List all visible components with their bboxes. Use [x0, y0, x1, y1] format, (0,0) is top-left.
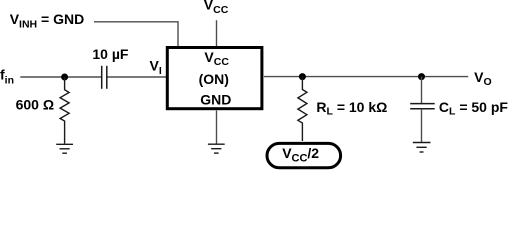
svg-text:VCC: VCC [204, 0, 229, 16]
junction node A [61, 74, 68, 81]
svg-text:600 Ω: 600 Ω [16, 97, 54, 113]
resistor 600 ohm [60, 77, 69, 144]
svg-text:GND: GND [200, 92, 231, 108]
ground (GND pin) [208, 144, 225, 153]
op-amp U1 box [167, 48, 262, 109]
svg-text:RL = 10 kΩ: RL = 10 kΩ [316, 99, 387, 117]
resistor RL [298, 77, 307, 141]
wire CL to ground [421, 109, 423, 142]
capacitor C 10uF [102, 66, 107, 89]
ground (600 ohm) [56, 144, 73, 153]
junction node B [299, 73, 306, 80]
svg-text:fin: fin [0, 66, 14, 86]
svg-text:10 µF: 10 µF [92, 46, 129, 62]
wire output rail [264, 76, 468, 78]
wire VINH to box top [94, 22, 178, 47]
node VCC/2 oval [267, 143, 341, 167]
svg-text:CL = 50 pF: CL = 50 pF [439, 99, 508, 117]
wire fin to capacitor [20, 76, 101, 78]
capacitor CL [410, 104, 435, 109]
wire capacitor to box [108, 76, 167, 78]
ground (CL) [413, 143, 431, 153]
wire GND pin to ground [216, 111, 218, 144]
wire node C to capacitor CL [421, 77, 423, 103]
svg-text:VO: VO [474, 69, 492, 88]
svg-text:VI: VI [150, 58, 162, 78]
wire VCC to box top [216, 20, 218, 46]
svg-text:VINH = GND: VINH = GND [10, 11, 85, 30]
svg-text:(ON): (ON) [199, 71, 229, 87]
junction node C [418, 73, 425, 80]
